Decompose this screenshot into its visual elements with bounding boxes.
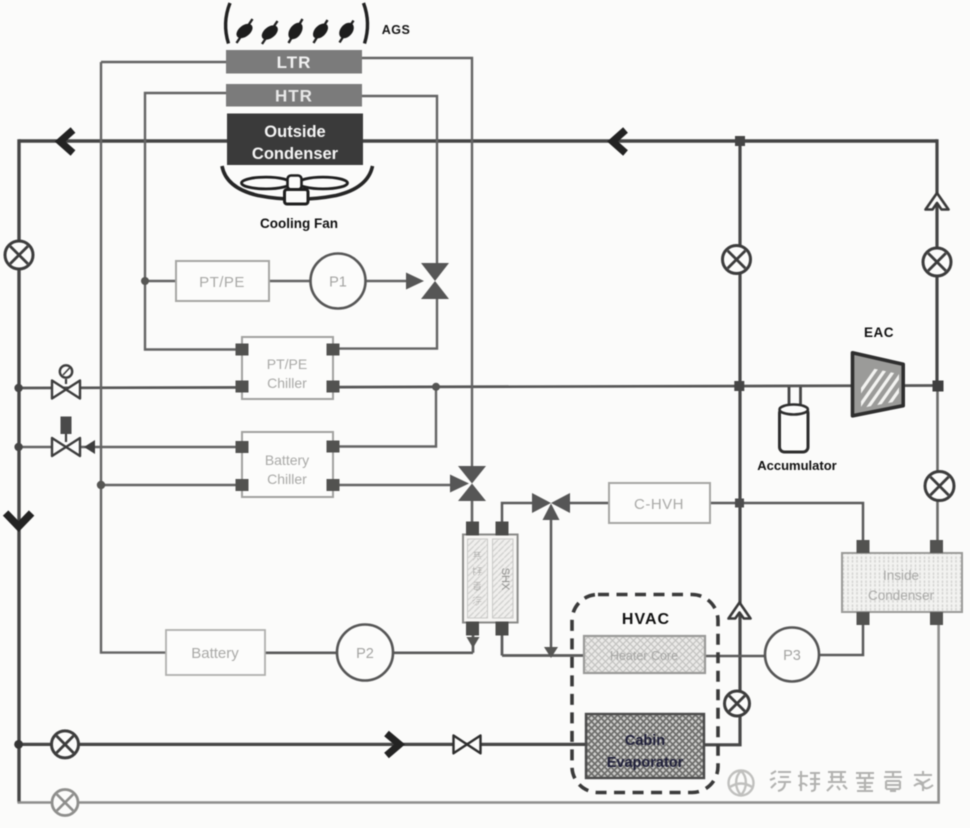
node junction left main at (18.6,744.4) <box>14 740 23 749</box>
shutoff valve SV6 circle-X (65,744.4) <box>52 731 79 758</box>
Heater Core box <box>584 636 705 673</box>
wire bowtie valve drop x=551 <box>550 515 553 656</box>
node junction left main at (18.6,447) <box>14 443 22 451</box>
IHX double heat exchanger box <box>463 535 518 623</box>
svg-text:Battery: Battery <box>265 452 309 468</box>
Inside Condenser tab bottom-left <box>857 612 870 625</box>
Inside Condenser tab bottom-right <box>930 612 943 625</box>
wire right vertical upper x=937 <box>935 139 938 386</box>
shutoff valve SV1 circle-X (19,255) <box>5 241 33 269</box>
shutoff valve SV5 circle-X (737,703.5) <box>725 691 750 716</box>
check valve CV6 hollow up chevron (739.5,609) <box>729 603 751 619</box>
wire LTR to left riser y=62 <box>101 61 227 63</box>
Accumulator <box>757 405 836 474</box>
svg-text:PT/PE: PT/PE <box>199 274 245 291</box>
svg-text:Outside: Outside <box>264 123 325 141</box>
PT/PE Chiller box <box>242 337 333 399</box>
check valve CV3 down-pointing chevron (18.6,521) <box>6 513 32 527</box>
svg-text:Cooling Fan: Cooling Fan <box>260 216 338 231</box>
svg-text:Battery: Battery <box>191 645 239 662</box>
AGS louver 1 <box>234 19 255 43</box>
wire IHX bottom right to heater core y=655.5 <box>502 626 586 656</box>
node arrow down into heater line at (551,652) <box>544 647 558 658</box>
svg-text:Cabin: Cabin <box>625 733 665 749</box>
cooling fan hub <box>288 176 302 190</box>
Inside Condenser box <box>842 553 962 612</box>
svg-text:Inside: Inside <box>883 568 919 583</box>
check valve CV5 hollow up chevron (937,201) <box>926 193 949 210</box>
cooling fan label <box>260 216 338 231</box>
LTR radiator bar <box>226 50 362 74</box>
watermark text 汽车热管理之家 pseudo-glyphs <box>770 771 933 791</box>
svg-text:HTR: HTR <box>275 87 313 106</box>
wire main refrigerant top line y=141 <box>19 139 937 142</box>
node junction center vertical at (739.3,386) <box>734 381 744 391</box>
Outside Condenser block <box>227 114 363 166</box>
check valve CV1 left-pointing chevron (65,141) <box>60 130 73 153</box>
node junction riser at (436,387) <box>432 383 440 391</box>
wire coolant valve2 line y=447 left <box>18 446 244 448</box>
pump P2 <box>337 625 393 681</box>
svg-text:Evaporator: Evaporator <box>607 755 684 771</box>
node junction center vertical at (739.5,503) <box>735 499 744 508</box>
expansion valve EXV1 (435,281) <box>421 263 449 299</box>
svg-text:Heater Core: Heater Core <box>610 649 678 663</box>
wire evaporator suction line y=744.4 <box>19 743 588 746</box>
shutoff valve SV3 circle-X (937,262) <box>923 248 951 276</box>
EAC compressor <box>846 325 924 422</box>
HTR radiator bar <box>226 84 362 107</box>
svg-text:C-HVH: C-HVH <box>634 496 684 513</box>
svg-text:EAC: EAC <box>864 325 894 340</box>
wire heater core to P3 to condenser y=655 <box>703 621 863 656</box>
AGS louver 5 <box>336 20 357 43</box>
wire LTR left drop x=101 <box>101 62 166 653</box>
node junction HTR branch at (145,281) <box>141 277 149 285</box>
node junction right vertical at (937.5,386) <box>933 381 944 392</box>
wire center thick vertical x=740 to evaporator <box>702 141 740 745</box>
IHX tab top-right <box>496 522 509 536</box>
wire battery to P2 to IHX bottom y=652.8 <box>263 626 473 653</box>
C-HVH heater box <box>609 483 710 523</box>
wire LTR right to 3way valve x=472 <box>361 58 472 468</box>
manual bowtie valve (467,744.4) <box>454 736 481 754</box>
Battery Chiller tab upper-right <box>327 441 340 453</box>
wire right vertical lower to condenser <box>936 386 939 542</box>
pump P3 <box>765 628 819 682</box>
coolant valve V1 with round actuator (66,389.5) <box>52 365 80 398</box>
shutoff valve SV4 circle-X (939.5,486) <box>925 472 954 501</box>
svg-text:Chiller: Chiller <box>267 471 307 487</box>
wire battery chiller lower line y=485 <box>101 484 456 486</box>
cooling fan left blade <box>242 177 291 189</box>
svg-text:Condenser: Condenser <box>868 588 935 603</box>
wire main middle horizontal y=387 <box>18 386 938 389</box>
svg-text:Accumulator: Accumulator <box>757 458 836 473</box>
watermark logo <box>729 771 754 796</box>
node junction top line at (740,141) <box>735 136 745 146</box>
AGS louver 3 <box>285 19 305 43</box>
svg-text:LTR: LTR <box>277 53 312 72</box>
shutoff valve SV7 circle-X gray (65,802.5) <box>52 790 78 816</box>
AGS shutter bracket right <box>364 3 368 44</box>
PT/PE Chiller tab upper-left <box>236 344 249 356</box>
wire HTR left drop x=145 to chiller <box>145 93 244 350</box>
coolant valve V2 with solid actuator (66,447) <box>52 417 95 457</box>
wire HTR right to expansion valve x=437 <box>361 96 437 265</box>
PT/PE Chiller tab lower-left <box>236 381 249 393</box>
PT/PE Chiller tab lower-right <box>327 381 340 393</box>
Battery Chiller box <box>242 432 333 497</box>
Battery Chiller tab upper-left <box>236 441 249 453</box>
Cabin Evaporator box <box>586 714 704 778</box>
Battery box <box>166 630 265 675</box>
wire accumulator neck stubs <box>789 387 801 404</box>
AGS label <box>382 23 411 37</box>
svg-text:Chiller: Chiller <box>267 375 307 391</box>
check valve CV2 left-pointing chevron (618,141) <box>613 130 626 153</box>
svg-text:AGS: AGS <box>382 23 411 37</box>
check valve CV4 right-pointing chevron (393,744.4) <box>387 734 400 756</box>
wire IHX top right to bowtie valve and C-HVH y=503 <box>502 503 863 548</box>
cooling fan motor box <box>285 190 309 205</box>
wire bottom return line y=802.5 <box>18 624 939 803</box>
PT/PE Chiller tab upper-right <box>327 344 340 356</box>
AGS louver 2 <box>259 21 280 44</box>
pump P1 <box>311 254 366 309</box>
IHX tab bottom-right <box>496 622 509 636</box>
cooling fan shroud <box>222 166 373 199</box>
refrigerant 3-way valve (472,483) <box>450 466 486 501</box>
wire 3way valve to IHX top left tab <box>471 498 474 528</box>
PT/PE sensor box <box>176 261 269 301</box>
AGS shutter bracket left <box>226 3 230 44</box>
Inside Condenser tab top-right <box>930 540 943 553</box>
node junction LTR drop at (101,485) <box>97 481 105 489</box>
svg-text:P1: P1 <box>329 275 347 291</box>
shutoff valve SV2 circle-X (736.5,259.5) <box>723 246 751 274</box>
IHX tab top-left <box>466 522 479 536</box>
svg-text:HVAC: HVAC <box>622 611 670 628</box>
Inside Condenser tab top-left <box>857 540 870 553</box>
wire left main vertical x=19 <box>17 139 20 802</box>
Battery Chiller tab lower-left <box>236 479 249 491</box>
svg-text:P3: P3 <box>783 648 801 664</box>
svg-text:SHX: SHX <box>499 568 511 591</box>
node junction left main at (18.6,388) <box>14 384 22 392</box>
arrow into expansion valve EXV1 <box>406 273 424 290</box>
coolant 3-way bowtie valve (551,503) <box>532 493 570 520</box>
node arrow down on IHX left bottom drop at (473,644) <box>467 637 480 648</box>
svg-text:Condenser: Condenser <box>252 145 339 163</box>
IHX tab bottom-left <box>466 622 479 636</box>
Battery Chiller tab lower-right <box>327 479 340 491</box>
svg-text:P2: P2 <box>356 646 374 662</box>
wire expansion valve down to chiller upper right <box>331 297 437 349</box>
wire PT/PE sensor branch y=281 <box>145 280 420 282</box>
HVAC dashed enclosure <box>572 595 718 793</box>
svg-text:PT/PE: PT/PE <box>267 356 307 372</box>
AGS louver 4 <box>310 20 331 43</box>
wire battery chiller upper right riser <box>333 386 436 447</box>
cooling fan right blade <box>299 177 348 189</box>
